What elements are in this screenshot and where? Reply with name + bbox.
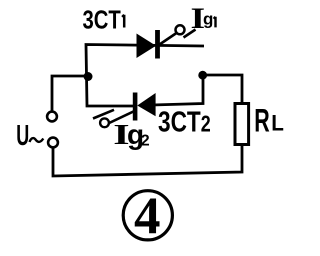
thyristor 3CT1 gate lead bbox=[160, 33, 177, 45]
label U tilde bbox=[30, 138, 44, 142]
figure number circle bbox=[123, 191, 172, 240]
wire resistor bottom to bottom rail and up to lower terminal bbox=[53, 145, 242, 176]
wire top branch and left vertical of loop bbox=[86, 45, 204, 107]
thyristor 3CT2 triangle bbox=[137, 93, 155, 116]
svg-text:R: R bbox=[254, 102, 270, 138]
wire bottom branch right segment up to right junction bbox=[152, 75, 203, 105]
wire right junction to resistor top bbox=[203, 75, 242, 103]
thyristor 3CT1 cathode bar bbox=[155, 30, 160, 59]
terminal circle lower (U~) bbox=[48, 138, 58, 148]
thyristor 3CT1 triangle bbox=[137, 34, 157, 59]
node junction dot right bbox=[198, 71, 207, 80]
thyristor 3CT2 cathode bar bbox=[133, 93, 138, 121]
svg-text:3CT: 3CT bbox=[83, 5, 121, 34]
label Ig1 subscript 1 bbox=[214, 17, 216, 28]
thyristor 3CT1 gate arrow from Ig1 bbox=[184, 30, 196, 38]
junction dot left bbox=[84, 72, 93, 81]
thyristor 3CT1 gate terminal circle bbox=[176, 25, 185, 34]
svg-text:2: 2 bbox=[141, 133, 150, 150]
thyristor 3CT2 gate arrow from Ig2 bbox=[93, 110, 114, 119]
svg-text:g: g bbox=[203, 10, 213, 29]
thyristor 3CT2 gate lead bbox=[106, 110, 137, 125]
svg-text:U: U bbox=[16, 120, 29, 152]
terminal circle upper (U~) bbox=[47, 112, 57, 122]
svg-text:L: L bbox=[271, 111, 284, 136]
label 3CT1 subscript 1 bbox=[122, 15, 124, 28]
svg-text:4: 4 bbox=[134, 188, 161, 246]
resistor RL body bbox=[235, 104, 249, 145]
wire left junction to upper terminal bbox=[52, 76, 88, 112]
thyristor 3CT2 gate terminal circle bbox=[100, 118, 109, 127]
